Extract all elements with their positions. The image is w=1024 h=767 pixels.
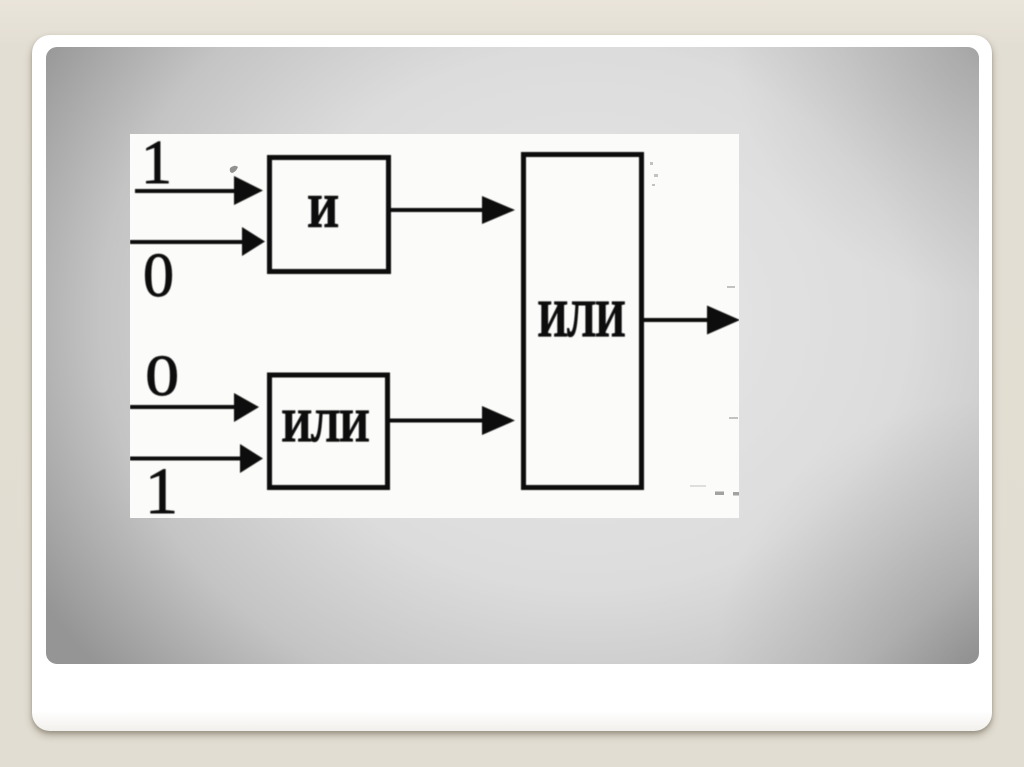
scan noise speckles <box>230 162 740 496</box>
gate box OR main (ИЛИ tall) <box>524 155 642 488</box>
wire input arrow 2 <box>130 240 244 244</box>
svg-text:0: 0 <box>145 343 179 407</box>
wire OR lower output arrow <box>390 419 485 423</box>
wire input arrow 3 <box>130 405 236 409</box>
gate box AND (И) <box>270 158 389 272</box>
svg-text:ИЛИ: ИЛИ <box>538 291 625 348</box>
svg-text:ИЛИ: ИЛИ <box>282 400 369 451</box>
wire input arrow 1 <box>135 189 237 193</box>
gray gradient slide panel <box>46 47 979 664</box>
svg-text:И: И <box>308 186 338 237</box>
gate box OR lower (ИЛИ) <box>270 375 388 488</box>
wire final output arrow <box>644 318 712 322</box>
svg-text:1: 1 <box>141 134 172 197</box>
svg-text:0: 0 <box>143 242 174 310</box>
scanned diagram image (white) <box>130 134 739 518</box>
wire input arrow 4 <box>130 457 242 461</box>
wire AND output arrow <box>391 208 486 212</box>
svg-text:1: 1 <box>145 455 178 518</box>
